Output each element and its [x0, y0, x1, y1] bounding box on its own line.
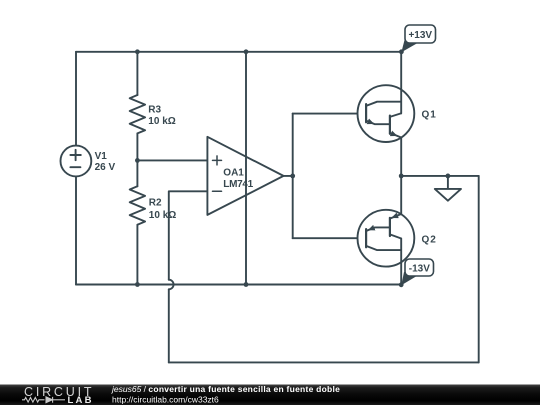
transistor Q1: [358, 85, 415, 142]
svg-text:10 kΩ: 10 kΩ: [149, 210, 176, 221]
svg-text:LM741: LM741: [223, 179, 253, 190]
ground: [435, 176, 461, 201]
node R3/R2 mid: [135, 158, 140, 163]
svg-text:+13V: +13V: [408, 30, 432, 41]
wire bottom rail: [76, 284, 401, 286]
svg-text:V1: V1: [95, 151, 108, 162]
svg-text:26 V: 26 V: [95, 162, 116, 173]
wire top rail: [76, 51, 401, 53]
wire R column bottom: [136, 225, 138, 285]
node -13V: [399, 282, 404, 287]
wire left top: [75, 52, 77, 146]
svg-text:10 kΩ: 10 kΩ: [148, 116, 175, 127]
wire feedback down: [168, 289, 170, 362]
wire Q2 collector: [400, 238, 402, 284]
flag -13V: [401, 259, 433, 285]
resistor R2: [130, 186, 145, 224]
wire R column mid: [136, 133, 138, 186]
svg-text:Q1: Q1: [422, 110, 437, 121]
logo resistor-diode: [22, 397, 65, 403]
node R2 bottom: [135, 282, 140, 287]
wire Q1 base: [293, 113, 366, 115]
flag +13V: [401, 25, 435, 52]
op-amp input polarity marks: [213, 156, 222, 191]
svg-text:jesus65 / convertir una fuente: jesus65 / convertir una fuente sencilla …: [111, 384, 340, 394]
wire output vertical: [292, 114, 294, 239]
wire Q2 base: [293, 237, 366, 239]
node op-amp output: [290, 174, 295, 179]
wire R column top: [136, 52, 138, 95]
svg-text:Q2: Q2: [422, 234, 437, 245]
svg-text:R3: R3: [148, 104, 161, 115]
transistor Q2: [358, 210, 415, 267]
svg-text:OA1: OA1: [223, 168, 244, 179]
wire output node right: [401, 175, 479, 177]
wire hop over bottom rail: [169, 280, 174, 290]
wire left bottom: [75, 176, 77, 284]
wire op-amp supply vertical: [245, 52, 247, 285]
wire Q2 emitter: [400, 176, 402, 214]
svg-text:R2: R2: [149, 198, 162, 209]
wire op-amp plus input: [137, 159, 207, 161]
wire op-amp minus input: [169, 191, 208, 279]
wire bottom feedback: [169, 361, 479, 363]
op-amp OA1: [207, 137, 283, 215]
node +13V: [399, 49, 404, 54]
voltage source V1: [61, 146, 92, 177]
node emitter junction: [399, 174, 404, 179]
svg-text:http://circuitlab.com/cw33zt6: http://circuitlab.com/cw33zt6: [112, 394, 219, 404]
wire op-amp output lead: [284, 175, 293, 177]
node supply top: [244, 49, 249, 54]
node R3 top: [135, 49, 140, 54]
node ground: [446, 174, 451, 179]
node supply bottom: [244, 282, 249, 287]
resistor R3: [130, 95, 145, 133]
svg-text:LAB: LAB: [68, 395, 94, 405]
wire Q1 emitter: [400, 138, 402, 176]
wire right feedback up: [478, 176, 480, 363]
svg-text:-13V: -13V: [409, 263, 430, 274]
node junction dots: [135, 49, 450, 287]
footer bar: [0, 385, 540, 405]
wire Q1 collector: [400, 52, 402, 114]
